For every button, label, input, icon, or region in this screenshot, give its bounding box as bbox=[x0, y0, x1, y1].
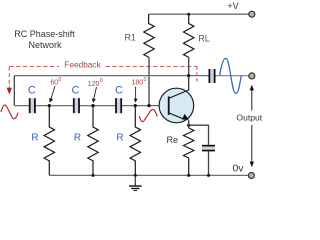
red input sine wave bbox=[1, 105, 18, 119]
ground symbol bbox=[129, 175, 142, 190]
node 2 bbox=[91, 104, 94, 107]
svg-text:60: 60 bbox=[50, 79, 58, 86]
svg-text:C: C bbox=[72, 84, 80, 96]
transistor Q1 circle bbox=[159, 88, 194, 123]
+V terminal bbox=[249, 11, 255, 17]
transistor emitter branch with arrow bbox=[169, 113, 184, 119]
arrow 60 deg to node 1 bbox=[51, 86, 55, 100]
wire: RC ladder horizontal bbox=[14, 105, 168, 107]
svg-text:+V: +V bbox=[227, 1, 238, 11]
wire RL bottom lead to collector node bbox=[188, 57, 190, 75]
output down arrow bbox=[251, 125, 253, 164]
wire: bottom ground rail bbox=[49, 174, 248, 176]
node: R1 lead / base wire junction bbox=[147, 104, 150, 107]
svg-text:Network: Network bbox=[28, 40, 62, 50]
svg-text:120: 120 bbox=[88, 81, 100, 88]
node 3 bbox=[134, 104, 137, 107]
svg-text:R: R bbox=[116, 133, 123, 144]
node: rail R3/ground bbox=[134, 174, 137, 177]
resistor R1 (bias) bbox=[144, 14, 154, 57]
capacitor Ce (bypass) bbox=[202, 145, 215, 152]
svg-text:R: R bbox=[31, 133, 38, 144]
node: rail Ce bbox=[207, 174, 210, 177]
0v terminal bbox=[248, 173, 254, 179]
capacitor C1 bbox=[29, 98, 36, 113]
svg-text:180: 180 bbox=[132, 80, 144, 87]
resistor RL (collector load) bbox=[184, 14, 194, 57]
feedback dashed line horizontal bbox=[9, 66, 59, 68]
node: collector junction bbox=[187, 74, 190, 77]
resistor Re bbox=[184, 128, 194, 175]
svg-text:Feedback: Feedback bbox=[64, 59, 101, 69]
output terminal bbox=[249, 73, 255, 79]
svg-text:RC Phase-shift: RC Phase-shift bbox=[14, 29, 75, 39]
arrow 120 deg to node 2 bbox=[94, 87, 97, 100]
svg-text:0: 0 bbox=[58, 77, 61, 83]
wire emitter to Re bbox=[188, 120, 190, 128]
node 1 bbox=[48, 104, 51, 107]
node: rail Re bbox=[187, 174, 190, 177]
svg-text:Re: Re bbox=[167, 135, 179, 145]
resistor R (ladder 3) bbox=[130, 106, 140, 176]
wire: top supply rail bbox=[149, 13, 249, 15]
capacitor C3 bbox=[115, 98, 122, 113]
svg-text:C: C bbox=[28, 84, 36, 96]
wire emitter to bypass capacitor bbox=[189, 125, 209, 145]
svg-text:C: C bbox=[115, 84, 123, 96]
node: top rail / RL junction bbox=[187, 13, 190, 16]
wire: box left vertical bbox=[13, 76, 15, 106]
output up arrow bbox=[251, 89, 253, 111]
svg-text:0v: 0v bbox=[232, 163, 244, 175]
resistor R (ladder 2) bbox=[88, 106, 98, 176]
node: emitter junction bbox=[187, 124, 190, 127]
svg-text:R1: R1 bbox=[124, 33, 136, 43]
transistor base bar bbox=[168, 96, 170, 114]
wire R1 bottom lead down to base wire bbox=[148, 57, 150, 105]
svg-text:0: 0 bbox=[100, 78, 103, 84]
resistor R (ladder 1) bbox=[44, 106, 54, 176]
capacitor C2 bbox=[73, 98, 80, 113]
node: rail R2 bbox=[92, 174, 95, 177]
blue output sine wave bbox=[220, 58, 242, 93]
wire: main feedback/output horizontal line bbox=[14, 75, 208, 77]
svg-text:Output: Output bbox=[236, 112, 262, 122]
svg-text:0: 0 bbox=[144, 77, 147, 83]
feedback dashed line right vertical bbox=[196, 67, 198, 84]
red base sine wave (inverted) bbox=[139, 109, 157, 121]
feedback dashed line left vertical with arrow bbox=[8, 67, 10, 89]
arrow 180 deg to node 3 bbox=[135, 87, 137, 100]
wire Ce bottom lead bbox=[208, 151, 210, 175]
capacitor Cout (coupling) bbox=[209, 69, 216, 83]
svg-text:RL: RL bbox=[198, 34, 210, 44]
svg-text:R: R bbox=[74, 133, 81, 144]
transistor collector branch bbox=[169, 76, 189, 99]
